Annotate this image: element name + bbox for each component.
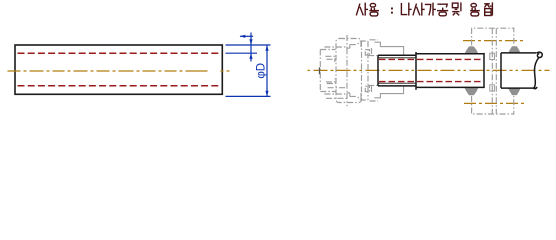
svg-text:φD: φD <box>256 63 268 79</box>
